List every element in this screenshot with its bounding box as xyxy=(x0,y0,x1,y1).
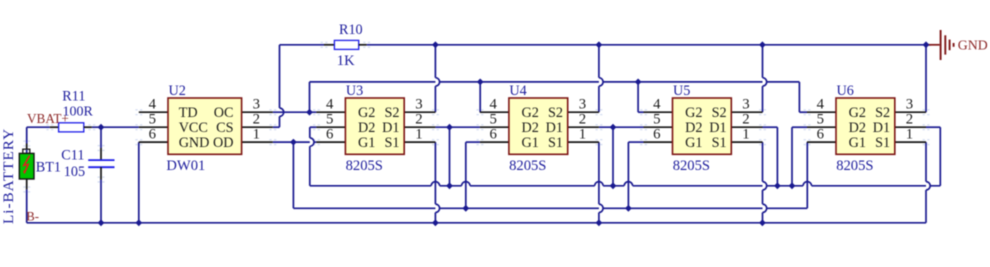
svg-text:D1: D1 xyxy=(709,120,726,136)
svg-text:U4: U4 xyxy=(509,83,526,99)
label 100R value of R11 xyxy=(63,104,94,119)
capacitor C11 xyxy=(88,148,114,180)
pin numbers of U5 xyxy=(653,97,750,143)
wire U6 S2 pin 3 riser to top bus xyxy=(925,45,927,112)
junction dots (all nets) xyxy=(98,41,930,226)
svg-text:S1: S1 xyxy=(385,135,400,151)
label BT1 xyxy=(36,160,61,176)
power bar GND symbol xyxy=(926,30,954,60)
svg-text:2: 2 xyxy=(742,112,749,128)
label U6 xyxy=(837,83,854,99)
wire U3 D1 pin 2 to U4 D2 pin 5 xyxy=(435,127,480,186)
svg-text:3: 3 xyxy=(253,97,260,113)
label R10 xyxy=(339,22,363,38)
label 105 value of C11 xyxy=(64,164,85,180)
IC U5 8205S xyxy=(644,98,763,154)
net label B- xyxy=(26,210,39,224)
wire OD drop to G1 gate bus xyxy=(292,142,294,208)
svg-text:3: 3 xyxy=(906,97,913,113)
IC U2 DW01 xyxy=(139,98,273,154)
svg-text:C11: C11 xyxy=(61,147,84,163)
label GND xyxy=(958,38,988,53)
label R11 xyxy=(62,89,85,105)
wire U5 D1 pin 2 drop to drain bus xyxy=(763,127,778,186)
svg-text:5: 5 xyxy=(817,112,824,128)
svg-text:D1: D1 xyxy=(546,120,563,136)
svg-text:OD: OD xyxy=(213,135,234,151)
wire drain bus (D1/D2 common) xyxy=(310,182,941,186)
pin numbers of U4 xyxy=(489,97,586,143)
svg-text:U6: U6 xyxy=(837,83,854,99)
svg-text:S2: S2 xyxy=(875,105,890,121)
wire U4 D1 pin 2 to U5 D2 pin 5 xyxy=(599,127,644,186)
svg-text:S2: S2 xyxy=(712,105,727,121)
svg-text:5: 5 xyxy=(653,112,660,128)
wire U2 OC pin 3 to U3 G2 pin 4 xyxy=(273,111,317,113)
svg-text:D1: D1 xyxy=(382,120,399,136)
battery BT1 xyxy=(19,144,34,190)
svg-text:2: 2 xyxy=(253,112,260,128)
resistor R11 xyxy=(50,123,92,132)
svg-text:6: 6 xyxy=(653,127,660,143)
svg-text:D2: D2 xyxy=(849,120,866,136)
svg-text:G1: G1 xyxy=(685,135,702,151)
svg-text:OC: OC xyxy=(214,105,234,121)
label U3 xyxy=(346,83,363,99)
IC U6 8205S xyxy=(807,98,926,154)
svg-text:1: 1 xyxy=(742,127,749,143)
label 1K value of R10 xyxy=(337,53,355,69)
wire C11 branch vertical xyxy=(100,127,102,223)
label U5 xyxy=(673,83,690,99)
svg-text:1: 1 xyxy=(906,127,913,143)
wire U6 D2 pin 5 drop to drain bus xyxy=(792,127,807,186)
svg-text:6: 6 xyxy=(326,127,333,143)
wire B- bottom bus xyxy=(27,222,926,224)
svg-text:S2: S2 xyxy=(385,105,400,121)
wire U3 S2 pin 3 riser to top bus xyxy=(435,45,439,112)
svg-text:D1: D1 xyxy=(873,120,890,136)
svg-text:S1: S1 xyxy=(548,135,563,151)
svg-text:5: 5 xyxy=(489,112,496,128)
wire U3 D2 pin 5 drop to drain bus xyxy=(310,127,317,186)
svg-text:CS: CS xyxy=(216,120,233,136)
svg-text:G2: G2 xyxy=(522,105,539,121)
wire U6 G1 pin 6 drop to G1 bus xyxy=(806,142,808,208)
svg-text:4: 4 xyxy=(817,97,825,113)
svg-text:Li-BATTERY: Li-BATTERY xyxy=(0,128,17,224)
svg-text:105: 105 xyxy=(64,164,85,180)
IC U4 8205S xyxy=(480,98,599,154)
svg-text:3: 3 xyxy=(415,97,422,113)
wire U2 GND pin 6 to B- bus xyxy=(138,142,140,223)
label DW01 value of U2 xyxy=(166,158,205,174)
svg-text:VBAT+: VBAT+ xyxy=(27,111,69,126)
svg-text:G2: G2 xyxy=(685,105,702,121)
wire battery negative to B- bus xyxy=(26,189,28,222)
wire U2 OD pin 1 to U3 G1 pin 6 xyxy=(273,141,317,143)
wire VBAT+ net: battery positive to R11 and U2 VCC xyxy=(27,127,139,143)
label 8205S value of U3 xyxy=(346,158,383,174)
wire U6 D1 pin 2 drop to drain bus end xyxy=(926,127,940,186)
svg-text:S1: S1 xyxy=(712,135,727,151)
wire R10 left terminal down to U2 CS pin 2 xyxy=(273,45,284,127)
svg-text:R10: R10 xyxy=(339,22,363,38)
svg-text:R11: R11 xyxy=(62,89,85,105)
svg-text:G1: G1 xyxy=(522,135,539,151)
wire U4 S2 pin 3 riser to top bus xyxy=(599,45,603,112)
wire G2 bus drop to U6 pin 4 xyxy=(799,82,807,112)
svg-text:6: 6 xyxy=(149,127,156,143)
svg-text:B-: B- xyxy=(26,210,39,224)
svg-text:G2: G2 xyxy=(849,105,866,121)
svg-text:DW01: DW01 xyxy=(166,158,205,174)
svg-text:8205S: 8205S xyxy=(836,158,873,174)
svg-text:U5: U5 xyxy=(673,83,690,99)
svg-text:S2: S2 xyxy=(548,105,563,121)
label C11 xyxy=(61,147,84,163)
svg-text:4: 4 xyxy=(326,97,334,113)
pin numbers of U3 xyxy=(326,97,423,143)
resistor R10 xyxy=(324,40,367,49)
svg-text:G1: G1 xyxy=(849,135,866,151)
svg-text:8205S: 8205S xyxy=(673,158,710,174)
wire G2 bus drop to U5 pin 4 xyxy=(638,82,643,112)
net label VBAT+ xyxy=(27,111,69,126)
svg-text:2: 2 xyxy=(906,112,913,128)
svg-text:4: 4 xyxy=(653,97,661,113)
svg-text:1K: 1K xyxy=(337,53,355,69)
label 8205S value of U4 xyxy=(509,158,546,174)
IC U3 8205S xyxy=(316,98,435,154)
svg-text:6: 6 xyxy=(489,127,496,143)
svg-text:TD: TD xyxy=(179,105,198,121)
wire U6 S1 pin 1 drop to B- bus xyxy=(926,142,930,223)
svg-text:8205S: 8205S xyxy=(509,158,546,174)
svg-text:2: 2 xyxy=(579,112,586,128)
wire U3 S1 pin 1 drop to B- bus xyxy=(435,142,439,223)
svg-text:VCC: VCC xyxy=(179,120,208,136)
svg-text:5: 5 xyxy=(149,112,156,128)
svg-text:BT1: BT1 xyxy=(36,160,61,176)
label 8205S value of U5 xyxy=(673,158,710,174)
svg-text:8205S: 8205S xyxy=(346,158,383,174)
wire U5 S2 pin 3 riser to top bus xyxy=(763,45,767,112)
label 8205S value of U6 xyxy=(836,158,873,174)
svg-text:G2: G2 xyxy=(358,105,375,121)
svg-text:1: 1 xyxy=(253,127,260,143)
svg-text:2: 2 xyxy=(415,112,422,128)
svg-text:1: 1 xyxy=(579,127,586,143)
wire G1 gate bus xyxy=(293,207,807,209)
label U2 xyxy=(169,83,186,99)
svg-text:5: 5 xyxy=(326,112,333,128)
label Li-BATTERY xyxy=(0,128,17,224)
svg-text:6: 6 xyxy=(817,127,824,143)
svg-text:S1: S1 xyxy=(875,135,890,151)
wire U5 G1 pin 6 drop to G1 bus xyxy=(628,142,643,208)
svg-text:4: 4 xyxy=(489,97,497,113)
svg-text:3: 3 xyxy=(742,97,749,113)
wire OC riser to G2 gate bus xyxy=(309,82,311,112)
svg-text:D2: D2 xyxy=(358,120,375,136)
svg-text:GND: GND xyxy=(179,135,210,151)
svg-text:D2: D2 xyxy=(522,120,539,136)
svg-text:U2: U2 xyxy=(169,83,186,99)
pin numbers of U2 xyxy=(149,97,260,143)
svg-text:1: 1 xyxy=(415,127,422,143)
wire G2 gate bus xyxy=(310,81,800,83)
svg-text:U3: U3 xyxy=(346,83,363,99)
svg-text:GND: GND xyxy=(958,38,988,53)
pin numbers of U6 xyxy=(817,97,914,143)
wire U4 S1 pin 1 drop to B- bus xyxy=(599,142,603,223)
wire G2 bus drop to U4 pin 4 xyxy=(479,82,481,112)
wire U4 G1 pin 6 drop to G1 bus xyxy=(466,142,480,208)
svg-text:G1: G1 xyxy=(358,135,375,151)
svg-text:D2: D2 xyxy=(685,120,702,136)
label U4 xyxy=(509,83,526,99)
svg-text:4: 4 xyxy=(149,97,157,113)
wire U5 S1 pin 1 drop to B- bus xyxy=(763,142,767,223)
svg-text:3: 3 xyxy=(579,97,586,113)
wire top bus to GND (pack negative) xyxy=(280,44,932,46)
